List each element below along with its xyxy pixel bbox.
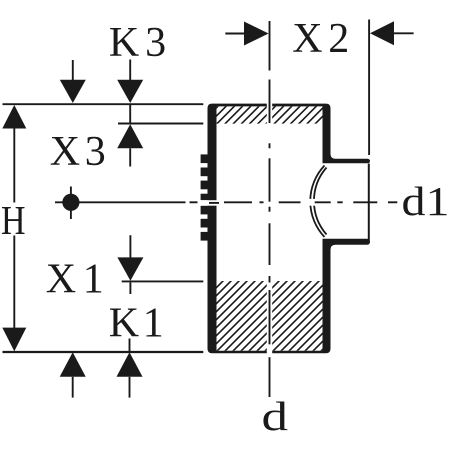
svg-text:X3: X3 (50, 129, 106, 175)
svg-text:K1: K1 (109, 300, 164, 346)
main axis centerline (vertical dash-dot) (269, 21, 271, 397)
X2 left arrow (points right at main axis) (225, 33, 245, 35)
X1 reference line (122, 280, 204, 282)
X2 right arrow (points left at branch end) (370, 21, 394, 45)
svg-text:d1: d1 (402, 178, 450, 224)
branch axis centerline (horizontal dash-dot) (55, 201, 397, 204)
X3 arrow (up onto X3 line) (117, 124, 143, 148)
bottom face extension line (3, 351, 204, 353)
H arrow up (2, 105, 26, 129)
bottom arrows (up onto bottom face) (60, 352, 86, 377)
K1 stem above bottom line (129, 339, 131, 352)
top face extension line (3, 103, 204, 105)
X3 reference line (118, 123, 203, 125)
svg-text:X2: X2 (292, 16, 349, 62)
halo for centerline in top hatch (267, 103, 272, 124)
X2 right extension line (368, 20, 370, 156)
H arrow down (2, 328, 26, 352)
svg-text:K3: K3 (109, 20, 166, 66)
branch end face (thin) (368, 164, 370, 241)
branch axis centre mark (62, 194, 79, 211)
K3 arrow right (down onto top face) (129, 60, 131, 81)
svg-text:X1: X1 (46, 257, 104, 303)
K3 arrow left (down onto top face) (72, 60, 74, 80)
top wall hatching (186, 95, 360, 130)
svg-text:d: d (262, 393, 289, 439)
spigot ribs (teeth) on left bar (201, 154, 208, 240)
halo for centerline in bottom hatch (267, 281, 272, 354)
halo over arcs at branch axis (303, 199, 318, 206)
H dimension line (13, 127, 15, 329)
branch bore arcs (310, 166, 326, 238)
X3 connector between faces (129, 104, 131, 123)
X1 arrow (down onto X1 line) (129, 235, 131, 258)
svg-text:H: H (1, 197, 26, 243)
white gap across ribbed bar at branch axis (200, 200, 218, 206)
bottom wall hatching (149, 275, 405, 355)
fitting body outline (tee cross-section, thick) (208, 104, 371, 354)
